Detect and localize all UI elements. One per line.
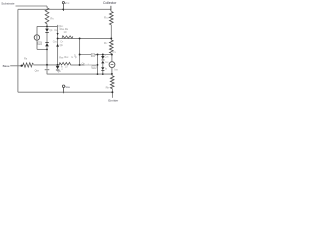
svg-text:CJ: CJ — [92, 55, 95, 57]
left rail — [17, 9, 19, 92]
diode V5 lower big down — [56, 66, 60, 69]
diode D2 up — [45, 43, 49, 46]
svg-text:10: 10 — [65, 66, 68, 69]
svg-text:RCX: RCX — [104, 15, 109, 19]
small diode on V5 upper — [57, 33, 59, 35]
wire H6 right — [80, 54, 112, 56]
label QCS under circle — [38, 42, 42, 45]
svg-text:QBC: QBC — [59, 24, 64, 28]
svg-text:RB: RB — [24, 57, 28, 61]
svg-text:RB2: RB2 — [64, 56, 68, 59]
svg-text:D: D — [74, 54, 76, 57]
svg-text:Emitter: Emitter — [108, 99, 118, 103]
svg-text:Substrate: Substrate — [1, 1, 15, 5]
diode V8 mid up — [101, 61, 104, 64]
resistor RCX — [110, 12, 114, 25]
resistor RC — [110, 38, 112, 40]
labels — [1, 1, 118, 103]
VCC port — [62, 2, 64, 4]
diode V8 top down — [101, 56, 104, 59]
svg-text:s: s — [95, 55, 97, 57]
resistor RS — [45, 8, 49, 24]
diode D1 down — [45, 29, 105, 71]
svg-text:Base: Base — [3, 64, 10, 68]
bottom rail — [18, 91, 113, 93]
svg-text:ITS: ITS — [113, 50, 117, 54]
wire H5 connector — [37, 48, 47, 50]
wire V4 center column — [46, 26, 48, 28]
wire V8 diode branch — [102, 55, 104, 57]
junction dots — [21, 9, 114, 94]
svg-text:RC: RC — [104, 41, 108, 45]
resistor RB diagonal — [23, 63, 34, 68]
small diode on V5 lower — [56, 44, 58, 46]
wire V7 — [97, 55, 99, 75]
resistor RBB zigzag on H4 — [62, 36, 73, 39]
current source Q1 circle — [34, 35, 39, 40]
emitter pin — [111, 89, 113, 98]
collector pin tick — [110, 6, 112, 11]
svg-text:VCC: VCC — [65, 1, 70, 5]
resistor base zigzag — [59, 62, 70, 65]
svg-text:ISC: ISC — [105, 61, 109, 64]
wire base internal — [34, 64, 60, 66]
svg-text:QF: QF — [50, 28, 54, 32]
current source Q2 circle — [109, 62, 115, 68]
VEE port — [62, 85, 64, 87]
svg-text:RE: RE — [106, 85, 110, 89]
wire base external — [10, 65, 23, 67]
svg-text:IBS: IBS — [115, 68, 119, 72]
wire V3 — [36, 26, 38, 35]
wire top rail collector — [18, 8, 111, 10]
wire V5 column — [57, 26, 59, 64]
wire base internal right — [71, 64, 85, 66]
capacitor under V4 — [46, 65, 48, 69]
svg-text:CBC: CBC — [53, 39, 58, 43]
wire V2 substrate drop — [46, 6, 48, 8]
svg-text:VEE: VEE — [65, 85, 70, 89]
wire substrate top — [16, 5, 48, 7]
svg-text:Collector: Collector — [103, 1, 117, 5]
svg-text:CP: CP — [60, 40, 64, 43]
svg-text:QR: QR — [60, 43, 64, 47]
svg-text:RS: RS — [50, 16, 54, 20]
wire V6 — [79, 38, 81, 65]
resistor RE — [111, 74, 113, 76]
capacitor plate bar — [45, 68, 50, 71]
diode V8 low down — [101, 67, 104, 70]
label CJX box — [91, 54, 94, 57]
wire H8 substrate net — [47, 73, 112, 75]
wire H4 internal collector — [58, 37, 112, 39]
wire above current source — [111, 55, 113, 62]
wire node BC horizontal — [37, 25, 58, 27]
svg-text:QBE: QBE — [35, 69, 40, 72]
svg-text:n: n — [62, 68, 64, 71]
svg-text:IS: IS — [105, 66, 108, 70]
